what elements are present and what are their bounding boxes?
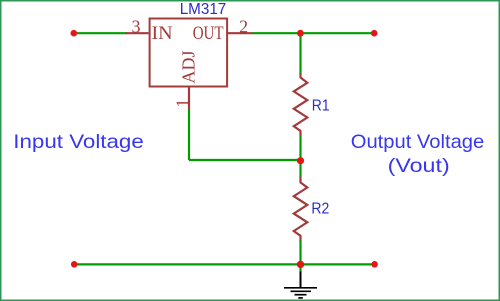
svg-text:Input Voltage: Input Voltage	[13, 131, 144, 153]
pin 3 IN stub	[126, 32, 149, 34]
node bottom-left terminal	[71, 261, 78, 268]
svg-text:Output Voltage: Output Voltage	[351, 131, 485, 153]
node input terminal	[71, 30, 78, 37]
pin 1 ADJ stub	[188, 87, 190, 111]
wire OUT to output node	[252, 32, 300, 34]
wire top-left rail	[74, 32, 127, 34]
ground stem	[300, 272, 302, 289]
node output terminal	[371, 30, 378, 37]
wire output node to output terminal	[300, 32, 374, 34]
regulator U1 LM317 body	[150, 19, 228, 87]
svg-text:R1: R1	[312, 97, 330, 114]
ground bar 1	[284, 287, 317, 289]
junction output node	[297, 30, 304, 37]
ground bar 4	[298, 297, 303, 299]
wire ADJ horizontal to node	[189, 159, 301, 161]
svg-text:ADJ: ADJ	[178, 50, 198, 83]
wire output node down to R1	[299, 33, 301, 74]
wire R1 to ADJ node	[299, 135, 301, 161]
svg-text:(Vout): (Vout)	[388, 155, 450, 177]
wire ground stub	[299, 264, 301, 272]
pin 2 OUT stub	[228, 32, 253, 34]
svg-text:LM317: LM317	[180, 1, 227, 18]
svg-text:1: 1	[173, 99, 193, 108]
svg-text:IN: IN	[152, 23, 173, 44]
resistor R1	[294, 74, 308, 136]
resistor R2	[294, 177, 308, 241]
svg-text:3: 3	[132, 17, 141, 37]
ground bar 2	[291, 290, 312, 292]
wire bottom rail	[74, 263, 374, 265]
svg-text:2: 2	[239, 17, 248, 37]
junction ADJ node	[297, 157, 304, 164]
wire ADJ pin vertical	[188, 110, 190, 161]
wire R2 to ground node	[299, 240, 301, 264]
svg-text:OUT: OUT	[193, 23, 224, 44]
wire ADJ node to R2	[299, 161, 301, 177]
junction ground node	[297, 261, 304, 268]
ground bar 3	[295, 294, 307, 296]
node bottom-right terminal	[371, 261, 378, 268]
svg-text:R2: R2	[311, 200, 329, 217]
